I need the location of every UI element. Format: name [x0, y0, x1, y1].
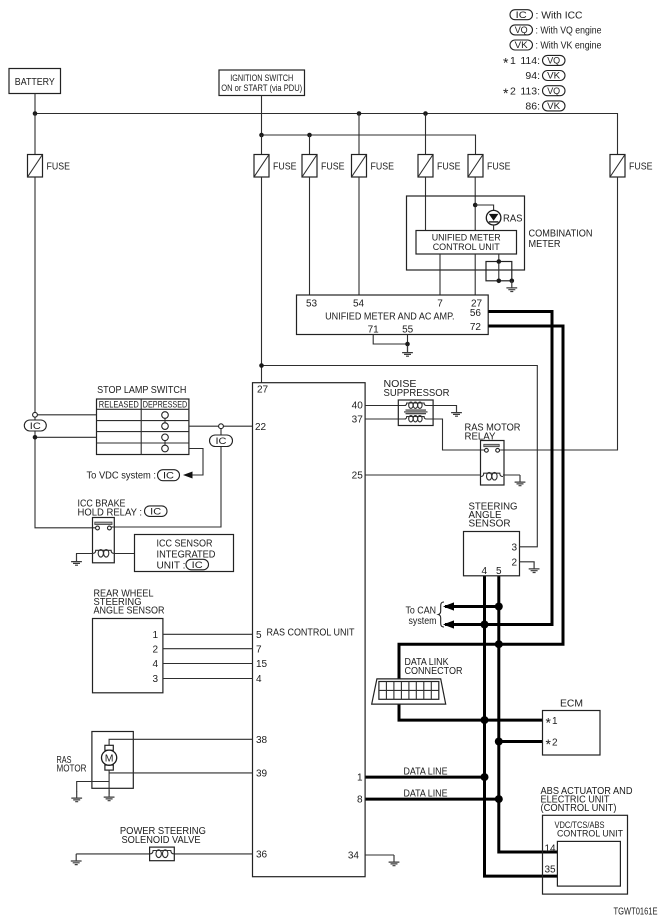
label combination meter — [529, 227, 593, 250]
wire motor to RAS pin38 — [109, 739, 252, 745]
fuse F5 — [418, 155, 461, 178]
ignition switch S1 — [219, 70, 305, 96]
wire UMCU to UMAA pin27 — [474, 254, 476, 295]
svg-text:DATA LINE: DATA LINE — [404, 788, 448, 800]
svg-text:94:: 94: — [525, 70, 540, 82]
svg-text:CONNECTOR: CONNECTOR — [405, 666, 463, 677]
svg-text:7: 7 — [256, 644, 262, 655]
svg-text:VK: VK — [547, 71, 560, 81]
wire RAS pin40 to noise suppressor — [365, 405, 406, 407]
svg-text:7: 7 — [437, 298, 443, 309]
svg-text:3: 3 — [511, 543, 517, 554]
wire RAS pin34 to ground — [365, 854, 394, 856]
svg-text:15: 15 — [256, 659, 268, 670]
fuse F2 — [254, 155, 297, 178]
ICC sensor integrated unit U4 — [135, 535, 234, 572]
oval IC battery line — [24, 420, 46, 432]
ground RAS motor relay — [515, 475, 526, 486]
wire motor to center ground — [108, 770, 110, 794]
wire contact link rows1-2 — [164, 418, 166, 423]
svg-text:53: 53 — [306, 298, 318, 309]
wire noise suppressor to ground — [427, 405, 457, 408]
wire F6 to UMCU — [474, 177, 476, 231]
svg-text:1: 1 — [152, 630, 158, 641]
wire F2 to RAS pin27 — [261, 177, 263, 383]
svg-text:FUSE: FUSE — [437, 160, 461, 172]
svg-text:3: 3 — [152, 674, 158, 685]
svg-text:IC: IC — [150, 507, 161, 518]
svg-text:CONTROL UNIT: CONTROL UNIT — [557, 829, 623, 840]
svg-text:TGWT0161E: TGWT0161E — [614, 906, 658, 918]
wire bus to F2 — [261, 135, 263, 155]
svg-text:: With VQ engine: : With VQ engine — [536, 25, 602, 37]
ABS actuator unit U8 outer box — [543, 815, 628, 894]
node battery bus at battery — [33, 111, 38, 116]
legend note *1 114 VQ — [503, 55, 565, 71]
svg-text:VK: VK — [515, 40, 528, 50]
node meter connector corner — [510, 279, 515, 284]
svg-text:system: system — [409, 616, 437, 627]
data line RAS pin1 — [365, 776, 484, 779]
svg-text:55: 55 — [402, 324, 414, 335]
relay K1 ICC brake hold — [93, 518, 115, 563]
ground power steering solenoid — [71, 854, 82, 865]
label rear wheel steering angle sensor — [94, 588, 165, 616]
svg-text:METER: METER — [529, 238, 561, 250]
wire switch row4 to VDC arrow — [189, 449, 203, 476]
wire ignition bus — [262, 135, 476, 155]
legend note *2 113 VQ — [503, 85, 565, 101]
svg-text:5: 5 — [256, 630, 262, 641]
CAN line to ECM star2 — [499, 740, 543, 743]
ground combination meter — [506, 281, 517, 292]
wire RAS pin25 to relay coil — [365, 474, 480, 476]
node battery line row3 — [33, 435, 38, 440]
label steering angle sensor — [469, 501, 518, 529]
svg-text:BATTERY: BATTERY — [15, 76, 55, 88]
svg-text:*: * — [546, 736, 552, 752]
node ECM star2 junction — [495, 738, 503, 746]
label To CAN system — [406, 605, 437, 627]
svg-text:MOTOR: MOTOR — [57, 764, 87, 775]
wire UMCU ground pin — [498, 254, 500, 281]
combination meter box — [407, 196, 525, 270]
battery B1 — [9, 69, 61, 94]
relay K2 RAS motor relay — [481, 441, 505, 486]
svg-text:RAS CONTROL UNIT: RAS CONTROL UNIT — [267, 626, 355, 638]
legend note 94 VK — [525, 70, 565, 82]
label RAS motor relay — [465, 423, 521, 443]
svg-text:ANGLE SENSOR: ANGLE SENSOR — [94, 605, 165, 616]
svg-text:STOP LAMP SWITCH: STOP LAMP SWITCH — [97, 384, 186, 396]
svg-text:DATA LINE: DATA LINE — [404, 766, 448, 778]
label ABS actuator and electric unit — [541, 786, 633, 814]
svg-text:114:: 114: — [520, 55, 540, 67]
svg-text:34: 34 — [348, 851, 360, 862]
svg-text:HOLD RELAY :: HOLD RELAY : — [78, 507, 143, 518]
CAN line from UMAA pin72 to data link connector — [399, 326, 563, 681]
ECM U7 — [543, 711, 601, 756]
CAN line steering angle sensor pin5 to ABS pin14 — [499, 576, 558, 853]
svg-text:VQ: VQ — [515, 25, 528, 35]
wire relay coil to ICC sensor unit pin2 — [114, 553, 134, 555]
ground ICC brake hold relay — [71, 555, 82, 566]
switch contact row4 — [162, 445, 169, 452]
svg-text:To CAN: To CAN — [406, 605, 437, 616]
wire battery bus — [35, 114, 618, 155]
svg-text:IC: IC — [216, 436, 227, 447]
ground RAS motor center — [104, 790, 115, 801]
wire branch to ICC brake hold relay — [112, 426, 222, 527]
svg-text:35: 35 — [545, 864, 557, 875]
switch contact row1 — [162, 412, 169, 419]
wire battery to bus — [34, 94, 36, 114]
wire F3 to UMAA pin53 — [309, 177, 311, 295]
arrowhead CAN pin56 — [443, 620, 454, 628]
wire contact link rows3-4 — [164, 441, 166, 446]
wire RWSAS2 to RAS7 — [163, 648, 253, 650]
svg-text:IC: IC — [192, 560, 203, 571]
svg-text:VQ: VQ — [547, 56, 560, 66]
node battery bus fuse F5 — [423, 111, 428, 116]
svg-text:4: 4 — [256, 674, 262, 685]
label RAS motor — [57, 755, 87, 774]
svg-text:SUPPRESSOR: SUPPRESSOR — [384, 388, 450, 399]
label power steering solenoid valve — [120, 826, 206, 846]
wire bus to F4 — [358, 114, 360, 155]
svg-text:VQ: VQ — [547, 86, 560, 96]
svg-text:37: 37 — [352, 415, 364, 426]
wire battery feed down left — [35, 177, 96, 528]
wire lamp to UMCU — [493, 225, 495, 231]
wire to RAS lamp — [475, 205, 493, 211]
data line RAS pin8 — [365, 798, 499, 801]
node ign bus fuse F3 — [307, 133, 312, 138]
svg-text:FUSE: FUSE — [273, 160, 297, 172]
svg-text:36: 36 — [256, 850, 268, 861]
CAN line from UMAA pin56 — [445, 312, 552, 625]
pin star1 label ECM — [546, 715, 559, 731]
svg-text:To VDC system :: To VDC system : — [87, 470, 157, 482]
wire noise suppressor to relay contact — [427, 419, 485, 450]
svg-text:4: 4 — [482, 566, 488, 577]
svg-text:IC: IC — [163, 471, 174, 482]
noise suppressor L1 — [398, 400, 433, 426]
node CAN pin72 x pin5 — [495, 640, 503, 648]
wire UMCU to UMAA pin7 — [439, 254, 441, 295]
steering angle sensor U6 — [464, 532, 520, 576]
node data line1 junction — [481, 773, 489, 781]
wire motor to RAS pin39 — [109, 772, 252, 774]
node CAN pin56 x pin4 — [481, 621, 489, 629]
svg-text:VK: VK — [547, 101, 560, 111]
svg-text:1: 1 — [510, 55, 516, 67]
node data line8 junction — [495, 795, 503, 803]
svg-text:*: * — [503, 55, 509, 71]
legend oval IC — [510, 10, 533, 20]
svg-text:2: 2 — [510, 85, 516, 97]
svg-text:2: 2 — [511, 557, 517, 568]
legend note 86 VK — [525, 101, 565, 113]
svg-text:14: 14 — [545, 844, 557, 855]
svg-text:27: 27 — [257, 385, 269, 396]
CAN arrow to CAN system upper — [445, 605, 499, 608]
svg-text:4: 4 — [152, 659, 158, 670]
svg-text:39: 39 — [256, 769, 268, 780]
wire bus to F3 — [309, 135, 311, 155]
connector circle battery line — [33, 412, 38, 417]
arrowhead to VDC — [183, 472, 193, 479]
svg-text:38: 38 — [256, 735, 268, 746]
wire RAS pin37 to noise suppressor — [365, 418, 406, 420]
switch contact row3 — [162, 434, 169, 441]
oval IC relay branch — [210, 435, 233, 447]
connector circle pin22 line — [219, 424, 224, 429]
svg-text:IC: IC — [516, 10, 528, 20]
meter connector box — [486, 262, 512, 281]
svg-text:RAS: RAS — [503, 214, 523, 225]
fuse F7 — [610, 155, 653, 178]
node CAN upper arrow x pin5 — [495, 603, 503, 611]
fuse F3 — [302, 155, 345, 178]
wire UMAA pin71 — [373, 335, 407, 345]
label ICC brake hold relay — [78, 498, 168, 518]
svg-text:SOLENOID VALVE: SOLENOID VALVE — [122, 835, 201, 846]
wire relay coil to ground — [77, 554, 93, 556]
svg-text:RELEASED: RELEASED — [99, 399, 139, 409]
unified meter control unit U2 — [416, 231, 517, 255]
svg-text:: With ICC: : With ICC — [536, 9, 583, 21]
wire motor ground branch left — [77, 782, 109, 792]
ground RAS pin34 — [389, 855, 400, 866]
svg-text:71: 71 — [368, 324, 380, 335]
svg-text:72: 72 — [470, 322, 482, 333]
fuse F1 — [28, 155, 71, 178]
svg-text:IGNITION SWITCH: IGNITION SWITCH — [230, 73, 293, 83]
svg-text:ECM: ECM — [560, 697, 583, 709]
node battery bus fuse F4 — [357, 111, 362, 116]
wire relay coil to ground — [503, 474, 520, 476]
svg-text:CONTROL UNIT: CONTROL UNIT — [433, 242, 500, 253]
wire RWSAS4 to RAS15 — [163, 663, 253, 665]
wire switch row2 to RAS pin22 — [189, 425, 253, 427]
svg-text:56: 56 — [470, 308, 482, 319]
node ECM star1 junction — [481, 716, 489, 724]
svg-text:40: 40 — [352, 401, 364, 412]
node meter connector bottom — [497, 279, 502, 284]
CAN line steering angle sensor pin4 to ABS pin35 — [485, 576, 559, 877]
VDC TCS ABS control unit inner box — [557, 841, 620, 886]
fuse F4 — [352, 155, 395, 178]
label data link connector — [405, 657, 463, 677]
svg-text:113:: 113: — [520, 85, 540, 97]
svg-text:*: * — [503, 85, 509, 101]
CAN line DLC to ECM star1 — [399, 703, 543, 720]
wire F7 to RAS motor relay contact — [500, 177, 617, 450]
wire battery to switch row3 — [35, 436, 97, 438]
label To VDC system — [87, 470, 180, 482]
node ign bus fuse F2 — [259, 133, 264, 138]
svg-text:FUSE: FUSE — [321, 160, 345, 172]
wire UMAA pin55 to ground — [407, 335, 409, 353]
ground RAS motor left — [71, 791, 82, 802]
legend oval VQ — [510, 25, 533, 35]
legend oval VK — [510, 40, 533, 50]
RAS motor M1 — [92, 732, 133, 789]
wire branch F2 to steering angle sensor pin3 — [262, 366, 538, 547]
node meter connector top — [497, 259, 502, 264]
svg-text:FUSE: FUSE — [371, 160, 395, 172]
wire bus to F1 — [34, 114, 36, 155]
wire ignition switch to ign bus — [261, 96, 263, 136]
svg-text:2: 2 — [152, 644, 158, 655]
solenoid valve L2 — [150, 847, 175, 861]
svg-text:*: * — [546, 715, 552, 731]
svg-text:DEPRESSED: DEPRESSED — [143, 399, 188, 409]
RAS control unit U1 — [253, 383, 366, 877]
svg-text:(CONTROL UNIT): (CONTROL UNIT) — [541, 803, 617, 814]
wire F4 to UMAA pin54 — [358, 177, 360, 295]
svg-text:1: 1 — [357, 773, 363, 784]
ground noise suppressor — [451, 406, 462, 417]
svg-text:1: 1 — [552, 716, 558, 727]
arrowhead CAN upper — [443, 602, 454, 610]
svg-text:5: 5 — [496, 566, 502, 577]
fuse F6 — [468, 155, 511, 178]
stop lamp switch S2 table — [97, 399, 189, 455]
wire RWSAS3 to RAS4 — [163, 678, 253, 680]
ground steering angle sensor — [529, 562, 540, 573]
svg-text:25: 25 — [352, 471, 364, 482]
ground UMAA — [402, 346, 413, 357]
svg-text:FUSE: FUSE — [487, 160, 511, 172]
label noise suppressor — [384, 379, 450, 399]
node F2 branch junction — [259, 363, 264, 368]
svg-text:UNIFIED METER AND AC AMP.: UNIFIED METER AND AC AMP. — [325, 311, 454, 323]
wire ground to solenoid to RAS pin36 — [76, 853, 252, 855]
svg-text:ON or START (via PDU): ON or START (via PDU) — [221, 83, 302, 93]
wire SAS pin2 to ground — [520, 561, 535, 564]
svg-text:UNIT :: UNIT : — [157, 560, 186, 572]
unified meter and ac amp U3 — [297, 295, 489, 335]
svg-text:M: M — [105, 753, 114, 765]
svg-text:86:: 86: — [525, 101, 540, 113]
pin star2 label ECM — [546, 736, 559, 752]
svg-text:8: 8 — [357, 795, 363, 806]
brace CAN system — [438, 602, 444, 627]
node pin71 pin55 junction — [405, 342, 410, 347]
wire bus to F5 — [425, 114, 427, 155]
switch contact row2 — [162, 423, 169, 430]
svg-text:22: 22 — [255, 422, 267, 433]
indicator lamp RAS — [486, 210, 523, 225]
label VDC TCS ABS control unit — [555, 820, 624, 839]
node lamp feed junction — [473, 203, 478, 208]
svg-text:54: 54 — [353, 298, 365, 309]
svg-text:: With VK engine: : With VK engine — [536, 40, 602, 52]
svg-text:IC: IC — [30, 421, 41, 432]
data link connector J1 — [372, 679, 446, 704]
svg-text:FUSE: FUSE — [47, 160, 71, 172]
svg-text:SENSOR: SENSOR — [469, 518, 511, 529]
wire F5 to UMCU — [425, 177, 427, 231]
wire battery to switch row1 — [35, 414, 97, 416]
wire RWSAS1 to RAS5 — [163, 633, 253, 635]
rear wheel steering angle sensor U5 — [93, 619, 163, 693]
svg-text:2: 2 — [552, 738, 558, 749]
svg-text:FUSE: FUSE — [629, 160, 653, 172]
